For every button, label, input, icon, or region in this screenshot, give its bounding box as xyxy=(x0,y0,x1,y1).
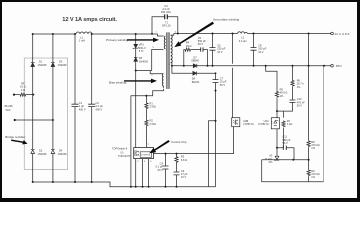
svg-text:6.8 Ω: 6.8 Ω xyxy=(181,158,187,162)
wire: bridge right rail xyxy=(52,34,54,182)
svg-text:Control chip: Control chip xyxy=(171,140,187,144)
diode D3 top-right of bridge xyxy=(51,63,55,67)
svg-text:12 V, 0.8 A: 12 V, 0.8 A xyxy=(335,32,350,36)
svg-text:16 V: 16 V xyxy=(258,50,264,54)
resistor R2 xyxy=(145,120,148,127)
wire: U1 source pins xyxy=(136,159,149,187)
wire: bias rectifier line D8 xyxy=(172,66,216,74)
capacitor C11 plates xyxy=(283,146,286,150)
svg-text:50 V: 50 V xyxy=(220,83,226,87)
transformer T1 secondary winding xyxy=(171,35,172,63)
capacitor C5bias plates xyxy=(163,166,169,169)
svg-text:BAV21: BAV21 xyxy=(192,80,200,84)
svg-text:1N4006: 1N4006 xyxy=(58,63,68,67)
arrow to secondary winding xyxy=(174,22,214,47)
wire: top output bus xyxy=(174,33,238,35)
TL431 U3 symbol xyxy=(275,156,280,161)
wire: top HV bus left xyxy=(33,33,76,35)
annotation arrows xyxy=(11,22,214,154)
optocoupler U2B transistor box xyxy=(232,118,240,127)
svg-text:1 mH: 1 mH xyxy=(79,39,85,43)
transformer T1 primary winding xyxy=(164,36,165,49)
wire: control pin line with R1 R2 xyxy=(145,96,147,148)
wire: AC input line 1 with fusible resistor xyxy=(14,94,19,96)
capacitor C6out plates xyxy=(210,48,216,51)
svg-text:2 MΩ: 2 MΩ xyxy=(150,105,156,109)
resistor R5 xyxy=(275,91,278,98)
svg-text:CONTROL: CONTROL xyxy=(141,154,152,156)
svg-text:TOP224YN: TOP224YN xyxy=(118,154,131,158)
svg-text:2 MΩ: 2 MΩ xyxy=(150,122,156,126)
svg-text:SB540: SB540 xyxy=(191,59,199,63)
svg-text:1 kΩ: 1 kΩ xyxy=(287,122,292,126)
resistor R1 xyxy=(145,102,148,109)
output terminal +12V xyxy=(331,32,334,35)
capacitor C5 snubber plates xyxy=(201,47,203,51)
diode D6 clamp xyxy=(134,57,138,61)
transformer T1 bias winding xyxy=(162,74,163,88)
svg-text:1N4006: 1N4006 xyxy=(38,63,48,67)
diode D4 bottom-right of bridge xyxy=(51,150,55,154)
svg-text:50 V: 50 V xyxy=(297,104,303,108)
wire: bottom primary bus xyxy=(33,182,216,187)
wire: R8 R9 sense branch xyxy=(308,34,310,182)
wire: top HV bus right of L1 xyxy=(92,34,164,36)
wire: opto collector from top bus xyxy=(232,34,234,118)
wire: C5bias branch xyxy=(165,154,167,187)
svg-text:50 V: 50 V xyxy=(282,141,288,145)
capacitor C8 plates xyxy=(251,48,257,51)
output terminal RTN xyxy=(331,65,334,68)
capacitor C6bias plates xyxy=(174,172,180,175)
resistor R6 xyxy=(291,80,294,87)
wire: C4 branch xyxy=(91,34,93,182)
wire: C7 line down xyxy=(215,73,217,186)
wire: opto LED bottom to TL431 xyxy=(276,129,278,161)
svg-text:1N4006: 1N4006 xyxy=(38,152,48,156)
resistor R8 xyxy=(307,140,310,147)
svg-text:LTV817A: LTV817A xyxy=(258,122,269,126)
wire: drain node down to U1 xyxy=(135,71,137,148)
wire: R7 branch xyxy=(283,111,285,148)
wire: control line from U1 to opto xyxy=(154,127,234,154)
svg-text:EF-L16: EF-L16 xyxy=(162,24,171,28)
wire: C11 row xyxy=(277,148,294,160)
diode D7 output rectifier xyxy=(193,64,197,68)
wire: R5 branch to opto LED xyxy=(266,66,277,118)
svg-text:5 %: 5 % xyxy=(139,49,144,53)
svg-text:1 W: 1 W xyxy=(21,88,26,92)
svg-text:1N4006: 1N4006 xyxy=(139,59,149,63)
capacitor C10 plates xyxy=(290,100,296,102)
wire: secondary top stub xyxy=(171,34,174,36)
wire: C6out branch xyxy=(212,34,214,66)
resistor R9 xyxy=(307,169,310,176)
wire: snubber loop R4 C5 xyxy=(184,50,208,66)
svg-text:16 V: 16 V xyxy=(217,50,223,54)
diode D2 bottom-left of bridge xyxy=(31,150,35,154)
wire: C3 loop over transformer xyxy=(152,17,178,34)
arrow to bridge rectifier xyxy=(11,140,28,145)
wire: bias winding bottom return xyxy=(131,89,164,187)
wire: gray 0V return on right xyxy=(323,66,325,182)
diode D1 top-left of bridge xyxy=(31,63,35,67)
transformer core xyxy=(166,32,167,89)
resistor R7 xyxy=(282,121,285,128)
svg-text:400 V: 400 V xyxy=(96,107,103,111)
annotation labels xyxy=(5,17,239,143)
arrow to control chip xyxy=(149,140,170,153)
svg-text:Secondary winding: Secondary winding xyxy=(213,17,239,21)
wire: TL431 row xyxy=(262,159,309,161)
svg-text:50 V: 50 V xyxy=(198,42,204,46)
wire: R6 C10 chain xyxy=(277,66,293,111)
svg-text:50 V: 50 V xyxy=(158,168,164,172)
svg-text:Bridge rectifier: Bridge rectifier xyxy=(5,135,25,139)
svg-text:U1: U1 xyxy=(120,150,124,154)
wire: small loop to lower bus xyxy=(209,121,216,187)
inductor L1 xyxy=(76,32,92,34)
resistor RF xyxy=(19,93,26,96)
svg-text:RTN: RTN xyxy=(336,64,342,68)
svg-text:1N4006: 1N4006 xyxy=(58,152,68,156)
svg-text:85-265: 85-265 xyxy=(5,104,14,108)
arrow to bias winding xyxy=(124,79,157,84)
svg-text:39 Ω: 39 Ω xyxy=(186,44,192,48)
wire: C1 branch xyxy=(74,34,76,182)
capacitor C4in plates xyxy=(88,104,95,106)
resistor R10 xyxy=(175,156,178,163)
wire: bottom right return xyxy=(262,160,324,182)
optocoupler U2A LED box xyxy=(271,118,279,129)
svg-text:10 V: 10 V xyxy=(181,175,187,179)
capacitor C3 plates xyxy=(165,14,168,19)
svg-text:400 V: 400 V xyxy=(79,107,86,111)
wire: C8 branch xyxy=(253,34,255,66)
svg-text:250 VAC: 250 VAC xyxy=(161,10,171,14)
svg-text:12 V 1A smps circuit.: 12 V 1A smps circuit. xyxy=(62,17,117,23)
svg-text:LTV817A: LTV817A xyxy=(243,122,254,126)
svg-text:VAC: VAC xyxy=(6,108,11,112)
capacitor C1 plates xyxy=(72,104,79,106)
resistor R4 snubber xyxy=(184,48,191,51)
wire: bridge left rail xyxy=(32,34,34,182)
wire: clamp branch D5 D6 xyxy=(135,34,137,71)
wire: AC input line 2 xyxy=(15,119,53,121)
zener D5 clamp xyxy=(133,44,139,49)
diode D8 bias rectifier xyxy=(193,71,197,75)
arrow to primary winding xyxy=(127,38,159,43)
wire: bias winding top xyxy=(150,71,163,74)
inductor L2 xyxy=(238,32,248,34)
capacitor C7 plates xyxy=(213,80,219,83)
svg-text:TOPSwitch-II: TOPSwitch-II xyxy=(112,147,128,151)
svg-text:Primary winding: Primary winding xyxy=(106,38,128,42)
wire: primary bottom jog xyxy=(136,50,164,71)
bridge rectifier gray box xyxy=(24,58,67,170)
svg-text:3.3 μH: 3.3 μH xyxy=(239,39,247,43)
wire: R10 C6 branch xyxy=(176,154,178,187)
wire: secondary bottom to 0V line with D7 xyxy=(171,63,331,66)
U1 TOPSwitch box xyxy=(134,148,154,159)
